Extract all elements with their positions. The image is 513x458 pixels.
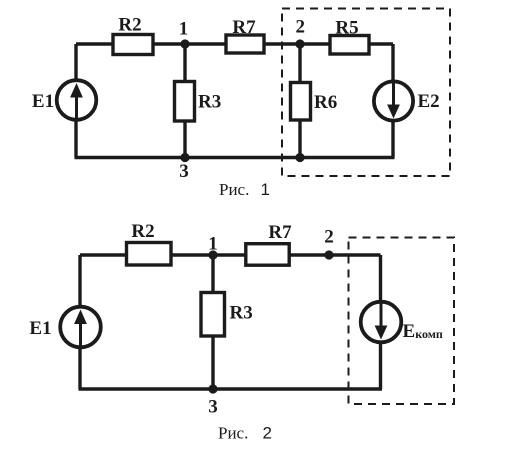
svg-text:Рис.: Рис. bbox=[218, 424, 248, 443]
resistor R7 fig1 bbox=[226, 35, 264, 53]
wire fig2 top bbox=[80, 253, 381, 256]
svg-text:1: 1 bbox=[261, 180, 270, 199]
wire fig2 bottom bbox=[79, 387, 383, 390]
wire fig2 left branch bbox=[78, 255, 81, 389]
dashed compensation boundary fig2 bbox=[349, 238, 455, 405]
resistor R3 fig1 bbox=[175, 82, 195, 122]
node 2 fig2 bbox=[324, 250, 333, 259]
svg-text:E2: E2 bbox=[418, 91, 440, 112]
svg-text:1: 1 bbox=[179, 19, 189, 40]
wire fig1 bottom bbox=[75, 156, 395, 159]
svg-text:3: 3 bbox=[179, 161, 189, 182]
resistor R7 fig2 bbox=[246, 244, 289, 266]
resistor R6 fig1 bbox=[291, 83, 311, 121]
resistor R2 fig2 bbox=[127, 243, 172, 266]
node 2 fig1 bbox=[295, 39, 304, 48]
svg-text:2: 2 bbox=[296, 17, 306, 38]
svg-text:2: 2 bbox=[263, 424, 272, 443]
resistor R3 fig2 bbox=[201, 293, 225, 337]
node 3 fig2 bbox=[208, 384, 217, 393]
wire fig1 R3 branch bbox=[183, 44, 186, 158]
wire fig2 right branch bbox=[379, 255, 382, 389]
svg-text:R2: R2 bbox=[131, 221, 154, 242]
source Екомп fig2 bbox=[361, 301, 402, 342]
svg-text:2: 2 bbox=[324, 227, 334, 248]
svg-text:R3: R3 bbox=[230, 303, 253, 324]
node 3 fig1 bbox=[180, 153, 189, 162]
resistor R2 fig1 bbox=[113, 35, 153, 55]
wire fig1 R6 branch bbox=[298, 44, 301, 158]
wire fig1 left branch bbox=[74, 44, 77, 158]
dashed compensation boundary fig1 bbox=[282, 9, 450, 177]
svg-text:1: 1 bbox=[208, 234, 218, 255]
node 1 fig1 bbox=[180, 39, 189, 48]
node 1 fig2 bbox=[208, 250, 217, 259]
resistor R5 fig1 bbox=[330, 36, 369, 55]
svg-text:R7: R7 bbox=[268, 222, 292, 243]
svg-text:E1: E1 bbox=[29, 318, 51, 339]
source E1 fig1 bbox=[57, 80, 97, 121]
source E2 fig1 bbox=[374, 80, 413, 121]
svg-text:R6: R6 bbox=[314, 92, 337, 113]
svg-text:R2: R2 bbox=[118, 15, 141, 36]
svg-text:E1: E1 bbox=[32, 91, 54, 112]
svg-text:Рис.: Рис. bbox=[219, 180, 249, 199]
svg-text:R5: R5 bbox=[335, 18, 358, 39]
source E1 fig2 bbox=[60, 307, 101, 348]
wire fig2 R3 branch bbox=[211, 255, 214, 389]
wire fig1 right branch bbox=[391, 44, 394, 158]
svg-text:R7: R7 bbox=[232, 17, 256, 38]
svg-text:3: 3 bbox=[208, 397, 218, 418]
wire fig1 top bbox=[76, 42, 393, 45]
svg-text:R3: R3 bbox=[198, 92, 221, 113]
junction below R6 fig1 bbox=[295, 153, 304, 162]
svg-text:Eкомп: Eкомп bbox=[403, 321, 443, 342]
